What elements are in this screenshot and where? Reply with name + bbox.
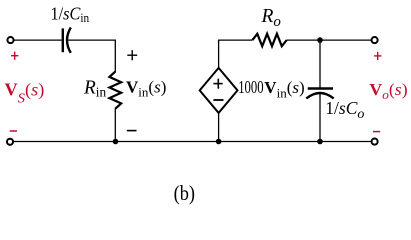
wire: Rin bottom to bottom rail bbox=[114, 109, 116, 142]
wire: Co bottom plate to rail bbox=[319, 94, 321, 142]
svg-text:1000: 1000 bbox=[238, 77, 264, 97]
terminal: Vo &#8722; (bottom-right) bbox=[372, 139, 378, 145]
resistor R_o bbox=[252, 34, 286, 46]
svg-text:Ro: Ro bbox=[261, 6, 282, 30]
label + (Vin polarity) bbox=[127, 50, 137, 60]
wire: bottom rail bbox=[13, 141, 371, 143]
resistor R_in bbox=[109, 72, 121, 109]
node: output top junction bbox=[317, 37, 323, 43]
value label 1000 (gain) bbox=[238, 77, 264, 97]
wire: Cin right plate to Rin top (corner) bbox=[67, 40, 115, 72]
svg-text:1/sCo: 1/sCo bbox=[325, 98, 364, 122]
label + (Vs polarity, red) bbox=[11, 52, 18, 60]
label &#8722; (Vs polarity, red) bbox=[10, 130, 17, 132]
capacitor C_in bbox=[63, 28, 71, 53]
node: Co bottom junction bbox=[317, 139, 323, 145]
node: dependent source bottom junction bbox=[216, 139, 222, 145]
svg-text:1/sCin: 1/sCin bbox=[51, 3, 90, 25]
wire: dependent source top to Ro bbox=[219, 40, 253, 69]
svg-text:Vo(s): Vo(s) bbox=[369, 80, 407, 102]
terminal: Vo + (top-right) bbox=[372, 37, 378, 43]
label R_in bbox=[83, 78, 106, 100]
wire: Vs+ terminal to Cin left plate bbox=[14, 39, 62, 41]
label &#8722; (Vo polarity, red) bbox=[373, 131, 380, 133]
node: Rin bottom junction bbox=[113, 139, 119, 145]
terminal: Vs &#8722; (bottom-left) bbox=[7, 139, 13, 145]
value label 1/sC_in bbox=[51, 3, 90, 25]
label V_in(s) bbox=[126, 77, 166, 99]
terminal: Vs + (top-left) bbox=[7, 37, 13, 43]
wire: Ro to output terminal bbox=[287, 39, 372, 41]
label V_S(s) (red) bbox=[5, 79, 45, 106]
svg-text:Vin(s): Vin(s) bbox=[126, 77, 166, 99]
svg-text:VS(s): VS(s) bbox=[5, 79, 45, 106]
wire: output node down to Co top plate bbox=[319, 40, 321, 87]
svg-text:Rin: Rin bbox=[83, 78, 106, 100]
label V_o(s) (red) bbox=[369, 80, 407, 102]
dependent source E1 (diamond) bbox=[200, 68, 238, 113]
svg-text:(b): (b) bbox=[174, 181, 195, 205]
svg-text:Vin(s): Vin(s) bbox=[264, 78, 304, 100]
value label V_in(s) (controlling voltage) bbox=[264, 78, 304, 100]
label + (Vo polarity, red) bbox=[374, 52, 381, 60]
caption (b) bbox=[174, 181, 195, 205]
label R_o bbox=[261, 6, 282, 30]
value label 1/sC_o bbox=[325, 98, 364, 122]
label &#8722; (Vin polarity) bbox=[127, 130, 137, 132]
capacitor C_o bbox=[306, 89, 333, 99]
wire: dependent source bottom to rail bbox=[218, 112, 220, 142]
